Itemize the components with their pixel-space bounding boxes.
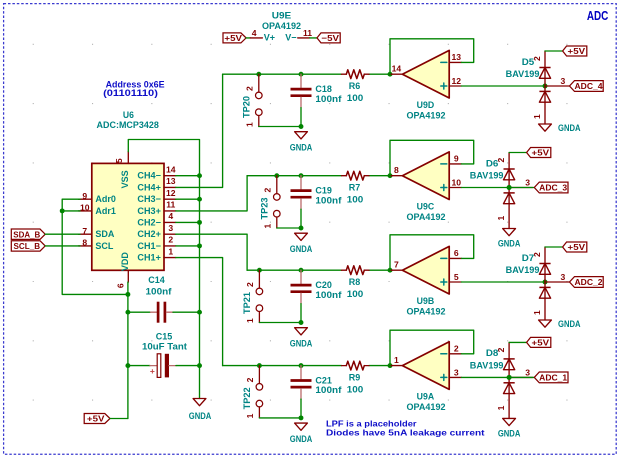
- svg-text:OPA4192: OPA4192: [407, 306, 446, 316]
- svg-text:2: 2: [245, 282, 255, 287]
- svg-text:C19: C19: [315, 185, 332, 195]
- svg-text:−5V: −5V: [321, 33, 339, 43]
- svg-text:7: 7: [82, 226, 87, 236]
- svg-text:100: 100: [347, 195, 364, 205]
- svg-text:14: 14: [392, 64, 402, 74]
- svg-text:1: 1: [263, 223, 273, 228]
- wire LPF row U9A: [223, 365, 342, 367]
- wire feedback loop: [390, 330, 474, 365]
- svg-text:SCL: SCL: [95, 241, 114, 251]
- power flag +5V (clamp): [563, 242, 587, 252]
- diode D6 BAV199: [507, 185, 512, 190]
- svg-text:13: 13: [166, 176, 176, 186]
- svg-text:2: 2: [168, 235, 173, 245]
- svg-text:ADC_2: ADC_2: [575, 277, 603, 287]
- svg-text:GNDA: GNDA: [290, 143, 313, 153]
- svg-text:2: 2: [454, 344, 459, 354]
- wire pin14 to bus: [176, 175, 200, 177]
- power flag -5V (U9E V-): [317, 33, 340, 43]
- svg-text:GNDA: GNDA: [558, 123, 581, 133]
- wire LPF row U9B: [247, 269, 341, 271]
- svg-text:U9C: U9C: [417, 202, 435, 212]
- svg-text:ADC_4: ADC_4: [575, 81, 603, 91]
- svg-text:8: 8: [82, 238, 87, 248]
- wire: [310, 37, 317, 39]
- svg-text:1: 1: [532, 310, 542, 315]
- svg-text:6: 6: [454, 248, 459, 258]
- svg-text:2: 2: [263, 187, 273, 192]
- svg-text:BAV199: BAV199: [506, 69, 540, 79]
- svg-text:3: 3: [561, 272, 566, 282]
- diode D7 BAV199: [543, 280, 548, 285]
- ground GNDA (clamp): [539, 320, 552, 327]
- ground GNDA (filter): [295, 132, 308, 139]
- svg-text:14: 14: [166, 164, 176, 174]
- wire clamp to +5V: [509, 341, 526, 343]
- wire clamp to +5V: [545, 50, 563, 52]
- svg-text:C14: C14: [148, 275, 165, 285]
- IC U6 pin 1 CH1+: [164, 257, 176, 259]
- wire test point to ground: [259, 417, 301, 419]
- IC U6 pin 11 CH3+: [164, 210, 176, 212]
- wire clamp to +5V: [509, 152, 526, 154]
- svg-text:C15: C15: [156, 331, 173, 341]
- node VDD rail junction: [125, 292, 130, 297]
- svg-text:OPA4192: OPA4192: [407, 212, 446, 222]
- svg-text:CH1−: CH1−: [137, 241, 161, 251]
- svg-text:1: 1: [496, 405, 506, 410]
- svg-text:BAV199: BAV199: [506, 265, 540, 275]
- svg-text:TP20: TP20: [242, 96, 252, 118]
- svg-text:+5V: +5V: [87, 414, 105, 424]
- svg-text:1: 1: [245, 318, 255, 323]
- svg-text:CH2−: CH2−: [137, 217, 161, 227]
- diode D8 BAV199: [507, 375, 512, 380]
- svg-text:5: 5: [454, 272, 459, 282]
- wire SCL: [45, 245, 80, 247]
- wire test point to ground: [277, 227, 301, 229]
- IC U6 MCP3428 body: [92, 163, 164, 270]
- IC U6 pin 6 VDD: [127, 270, 129, 282]
- svg-text:9: 9: [82, 191, 87, 201]
- svg-text:3: 3: [525, 367, 530, 377]
- svg-text:C20: C20: [315, 280, 332, 290]
- svg-text:BAV199: BAV199: [470, 171, 504, 181]
- wire buffer input: [461, 376, 509, 378]
- IC U6 pin 12 CH3−: [164, 198, 176, 200]
- hier label SDA_B: [11, 229, 45, 239]
- op-amp U9A OPA4192: [388, 363, 393, 368]
- svg-text:100: 100: [347, 289, 364, 299]
- svg-text:1: 1: [496, 215, 506, 220]
- IC U6 pin 14 CH4−: [164, 175, 176, 177]
- wire pin12 to bus: [176, 198, 200, 200]
- ground GNDA (filter): [295, 328, 308, 335]
- IC U6 pin 9 Adr0: [79, 198, 92, 200]
- svg-text:4: 4: [168, 211, 173, 221]
- svg-text:CH3+: CH3+: [137, 206, 161, 216]
- svg-text:100nf: 100nf: [146, 286, 173, 296]
- test point TP23: [274, 173, 279, 178]
- wire LPF row U9D: [223, 73, 342, 75]
- power flag +5V (clamp): [527, 148, 551, 158]
- svg-text:GNDA: GNDA: [498, 429, 521, 439]
- svg-text:GNDA: GNDA: [189, 411, 212, 421]
- svg-text:V+: V+: [264, 33, 275, 43]
- svg-text:7: 7: [394, 260, 399, 270]
- grid dots (decorative): [33, 44, 568, 400]
- wire Adr0/Adr1 to VDD rail: [62, 199, 128, 294]
- svg-text:1: 1: [245, 122, 255, 127]
- test point TP20: [256, 72, 261, 77]
- svg-text:11: 11: [303, 28, 312, 38]
- svg-text:+: +: [150, 366, 155, 376]
- wire VDD vertical rail: [127, 282, 129, 418]
- svg-text:2: 2: [532, 252, 542, 257]
- svg-text:U9A: U9A: [417, 392, 435, 402]
- svg-text:U9E: U9E: [272, 11, 292, 21]
- op-amp U9B OPA4192: [388, 268, 393, 273]
- op-amp U9D OPA4192: [388, 72, 393, 77]
- svg-text:1: 1: [532, 114, 542, 119]
- power flag +5V (clamp): [527, 337, 551, 347]
- svg-text:3: 3: [561, 76, 566, 86]
- svg-text:BAV199: BAV199: [470, 361, 504, 371]
- wire pin13 to CH4+ riser: [176, 74, 223, 187]
- svg-text:10: 10: [452, 177, 462, 187]
- svg-text:R6: R6: [349, 81, 361, 91]
- svg-text:10uF Tant: 10uF Tant: [142, 342, 187, 352]
- svg-text:Adr0: Adr0: [95, 194, 116, 204]
- svg-text:R7: R7: [349, 183, 361, 193]
- svg-text:8: 8: [394, 165, 399, 175]
- svg-text:C21: C21: [315, 375, 332, 385]
- diode D5 BAV199: [543, 84, 548, 89]
- svg-text:SCL_B: SCL_B: [14, 241, 41, 251]
- wire VSS to ground bus: [128, 140, 199, 176]
- wire clamp to +5V: [545, 246, 563, 248]
- svg-text:1: 1: [394, 355, 399, 365]
- wire LPF row U9C: [247, 175, 341, 177]
- resistor R8 100: [342, 269, 347, 271]
- svg-text:12: 12: [166, 188, 176, 198]
- svg-text:+5V: +5V: [568, 46, 586, 56]
- svg-text:100nf: 100nf: [315, 385, 342, 395]
- resistor R9 100: [342, 365, 347, 367]
- svg-text:OPA4192: OPA4192: [262, 21, 301, 31]
- svg-text:R8: R8: [349, 277, 361, 287]
- svg-text:100: 100: [347, 384, 364, 394]
- wire test point to ground: [259, 322, 301, 324]
- power flag +5V (U9E V+): [223, 33, 246, 43]
- svg-text:2: 2: [532, 56, 542, 61]
- wire buffer input: [461, 281, 545, 283]
- svg-text:100nf: 100nf: [315, 290, 342, 300]
- wire test point to ground: [259, 126, 301, 128]
- resistor R7 100: [342, 175, 347, 177]
- svg-text:TP23: TP23: [260, 198, 270, 220]
- svg-text:CH2+: CH2+: [137, 229, 161, 239]
- svg-text:+5V: +5V: [568, 242, 586, 252]
- svg-text:U9B: U9B: [417, 296, 435, 306]
- wire SDA: [45, 233, 80, 235]
- svg-text:6: 6: [116, 283, 126, 288]
- wire +5V to rail: [110, 418, 128, 420]
- svg-text:OPA4192: OPA4192: [407, 402, 446, 412]
- svg-text:12: 12: [452, 76, 462, 86]
- svg-text:Diodes have 5nA leakage curren: Diodes have 5nA leakage current: [326, 428, 485, 438]
- svg-text:ADC: ADC: [587, 9, 609, 23]
- ground GNDA (filter): [295, 423, 308, 430]
- power flag +5V (clamp): [563, 46, 587, 56]
- wire feedback loop: [390, 140, 474, 175]
- svg-text:GNDA: GNDA: [290, 339, 313, 349]
- svg-text:Adr1: Adr1: [95, 206, 116, 216]
- hier label SCL_B: [11, 241, 45, 251]
- svg-text:ADC_3: ADC_3: [539, 183, 567, 193]
- svg-text:GNDA: GNDA: [498, 239, 521, 249]
- svg-text:GNDA: GNDA: [558, 319, 581, 329]
- svg-text:VSS: VSS: [120, 170, 130, 188]
- capacitor C21: [299, 363, 304, 368]
- IC U6 pin 8 SCL: [79, 245, 92, 247]
- svg-text:13: 13: [452, 52, 462, 62]
- svg-text:C18: C18: [315, 84, 332, 94]
- svg-text:U6: U6: [123, 110, 134, 120]
- IC U6 pin 2 CH1−: [164, 245, 176, 247]
- svg-text:2: 2: [245, 377, 255, 382]
- svg-text:CH4+: CH4+: [137, 182, 161, 192]
- svg-text:2: 2: [245, 86, 255, 91]
- ground GNDA (clamp): [503, 229, 516, 236]
- svg-text:ADC:MCP3428: ADC:MCP3428: [97, 120, 159, 130]
- wire buffer input: [461, 187, 509, 189]
- svg-text:GNDA: GNDA: [290, 434, 313, 444]
- power flag +5V (bottom left): [84, 414, 110, 424]
- op-amp U9E pin 4 V+: [250, 37, 262, 39]
- svg-text:SDA_B: SDA_B: [13, 229, 40, 239]
- svg-text:GNDA: GNDA: [290, 244, 313, 254]
- svg-text:SDA: SDA: [95, 229, 115, 239]
- svg-text:3: 3: [168, 223, 173, 233]
- wire pin2 to bus: [176, 245, 200, 247]
- svg-text:10: 10: [80, 203, 90, 213]
- IC U6 pin 5 VSS: [127, 152, 129, 164]
- svg-text:TP21: TP21: [242, 292, 252, 314]
- svg-text:TP22: TP22: [242, 387, 252, 409]
- svg-text:100nf: 100nf: [315, 195, 342, 205]
- wire feedback loop: [390, 39, 474, 74]
- svg-text:VDD: VDD: [120, 252, 130, 272]
- svg-text:100: 100: [347, 93, 364, 103]
- ground bus vertical (GNDA net): [199, 176, 201, 399]
- capacitor C18: [299, 72, 304, 77]
- ground GNDA (main bus): [193, 399, 206, 406]
- op-amp U9C OPA4192: [388, 173, 393, 178]
- svg-text:ADC_1: ADC_1: [539, 373, 567, 383]
- capacitor C20: [299, 268, 304, 273]
- svg-text:100nf: 100nf: [315, 94, 342, 104]
- test point TP21: [257, 268, 262, 273]
- wire buffer input: [461, 85, 545, 87]
- svg-text:+5V: +5V: [224, 33, 242, 43]
- svg-text:2: 2: [496, 347, 506, 352]
- svg-text:3: 3: [454, 367, 459, 377]
- svg-text:V−: V−: [285, 33, 296, 43]
- ground GNDA (clamp): [503, 418, 516, 425]
- svg-text:CH3−: CH3−: [137, 194, 161, 204]
- test point TP22: [257, 363, 262, 368]
- ground GNDA (filter): [295, 233, 308, 240]
- IC U6 pin 3 CH2+: [164, 233, 176, 235]
- ground GNDA (clamp): [539, 124, 552, 131]
- svg-text:1: 1: [245, 413, 255, 418]
- svg-text:CH1+: CH1+: [137, 253, 161, 263]
- svg-text:11: 11: [166, 200, 175, 210]
- IC U6 pin 7 SDA: [79, 233, 92, 235]
- IC U6 pin 4 CH2−: [164, 221, 176, 223]
- svg-text:9: 9: [454, 154, 459, 164]
- svg-text:+5V: +5V: [532, 337, 550, 347]
- wire pin11 to CH3+ riser: [176, 176, 247, 211]
- svg-text:3: 3: [525, 177, 530, 187]
- wire Adr1: [62, 210, 80, 212]
- svg-text:R9: R9: [349, 373, 361, 383]
- svg-text:+5V: +5V: [532, 148, 550, 158]
- svg-text:1: 1: [168, 246, 173, 256]
- svg-text:2: 2: [496, 157, 506, 162]
- IC U6 pin 10 Adr1: [79, 210, 92, 212]
- wire feedback loop: [390, 235, 474, 270]
- svg-text:CH4−: CH4−: [137, 171, 161, 181]
- svg-text:(01101110): (01101110): [103, 88, 158, 98]
- wire pin4 to bus: [176, 221, 200, 223]
- capacitor C19: [299, 173, 304, 178]
- svg-text:OPA4192: OPA4192: [407, 110, 446, 120]
- svg-text:4: 4: [252, 28, 257, 38]
- wire: [246, 37, 250, 39]
- wire pin1 to CH1+ riser: [176, 258, 223, 366]
- resistor R6 100: [342, 73, 347, 75]
- IC U6 pin 13 CH4+: [164, 186, 176, 188]
- svg-text:5: 5: [114, 158, 124, 163]
- wire pin3 to CH2+ riser: [176, 234, 247, 270]
- svg-text:U9D: U9D: [417, 100, 435, 110]
